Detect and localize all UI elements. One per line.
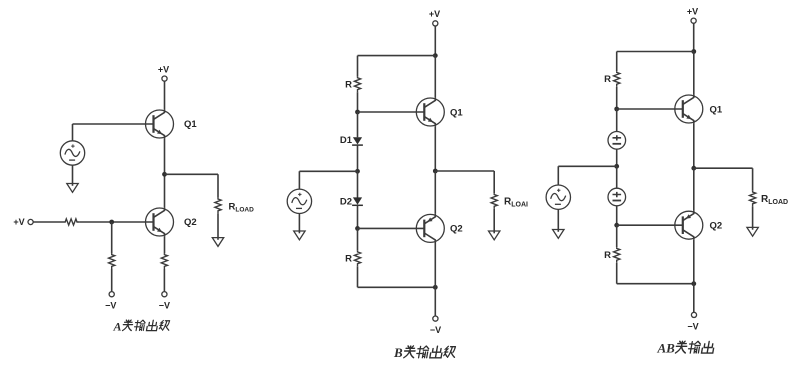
- transistor Q1: [146, 109, 174, 138]
- wire down to R1: [357, 56, 359, 77]
- svg-text:−V: −V: [430, 325, 441, 335]
- node output junction: [433, 169, 438, 174]
- ground: [294, 231, 305, 240]
- resistor RB (horizontal): [64, 219, 80, 225]
- transistor Q2: [416, 214, 444, 243]
- svg-text:−V: −V: [159, 301, 170, 311]
- resistor RLOAD: [215, 198, 221, 214]
- resistor R bias: [109, 253, 115, 269]
- transistor Q2: [675, 211, 703, 240]
- wire junction to Q1 collector: [434, 56, 436, 98]
- caption AB class output: [657, 340, 715, 355]
- node source junction: [355, 169, 360, 174]
- svg-text:D2: D2: [340, 197, 352, 208]
- svg-text:R: R: [345, 80, 352, 91]
- transistor Q1: [675, 94, 703, 123]
- wire RLOAD to ground: [493, 209, 495, 233]
- wire Q1 emitter to output: [693, 124, 695, 169]
- wire +V to Q1 collector: [164, 81, 166, 109]
- wire junction down: [111, 222, 113, 253]
- wire Q1 base: [73, 123, 146, 125]
- source VS2 (sine): [287, 189, 311, 213]
- node Q2 base junction: [355, 226, 360, 231]
- svg-text:−V: −V: [687, 322, 698, 332]
- node +V terminal: [691, 18, 696, 23]
- wire node to D1: [357, 112, 359, 137]
- node -V terminal: [162, 292, 167, 297]
- source VS3 (sine): [546, 185, 570, 209]
- node -V terminal: [109, 292, 114, 297]
- ground: [747, 227, 758, 236]
- svg-text:B: B: [393, 345, 403, 360]
- wire RLOAD to ground: [217, 213, 219, 239]
- svg-text:R: R: [604, 250, 611, 261]
- wire output to Q2 emitter: [434, 171, 436, 214]
- node Q1 base junction: [614, 107, 619, 112]
- wire bottom to -V: [693, 284, 695, 313]
- node top junction: [691, 49, 696, 54]
- wire node to R2: [616, 225, 618, 247]
- resistor RLOAD: [750, 191, 756, 207]
- svg-text:Q1: Q1: [450, 107, 463, 118]
- wire VS2 to ground: [298, 214, 300, 234]
- svg-text:A: A: [113, 320, 122, 334]
- wire output to RLOAD: [694, 168, 753, 191]
- wire VS1 to ground: [72, 165, 74, 186]
- wire top rail left: [358, 55, 436, 57]
- wire node to R2: [357, 228, 359, 250]
- wire R2 to bottom rail: [357, 266, 359, 287]
- node +V terminal: [162, 76, 167, 81]
- wire down to R1: [616, 52, 618, 72]
- wire to Q2 base: [617, 224, 675, 226]
- wire output to RLOAD: [435, 171, 494, 193]
- svg-text:R: R: [604, 74, 611, 85]
- ground: [553, 230, 564, 239]
- caption A class output stage: [113, 320, 171, 334]
- wire resistor to Q2 base: [80, 221, 146, 223]
- source VS1 (sine): [60, 141, 84, 165]
- wire bottom to -V: [434, 287, 436, 316]
- wire VS3 to ground: [557, 209, 559, 231]
- transistor Q2: [146, 207, 174, 236]
- wire node to source VS3: [558, 166, 616, 185]
- svg-text:D1: D1: [340, 135, 353, 146]
- ground: [489, 231, 500, 240]
- wire node to source VS2: [299, 171, 357, 189]
- node base junction: [109, 220, 114, 225]
- wire to -V terminal: [111, 269, 113, 292]
- node output junction: [691, 166, 696, 171]
- svg-text:+V: +V: [13, 217, 24, 227]
- node source junction: [614, 164, 619, 169]
- node bottom junction: [433, 285, 438, 290]
- wire RLOAD to ground: [752, 206, 754, 229]
- svg-text:Q2: Q2: [450, 224, 463, 235]
- node +V input terminal: [28, 219, 33, 224]
- node Q2 base junction: [614, 223, 619, 228]
- svg-text:+V: +V: [429, 9, 440, 19]
- wire output to RLOAD: [165, 174, 219, 198]
- caption B class output stage: [393, 345, 456, 360]
- wire node to V1: [616, 109, 618, 132]
- transistor Q1: [416, 97, 444, 126]
- svg-text:Q1: Q1: [710, 104, 723, 115]
- diode D1: [352, 137, 363, 145]
- wire to Q1 base: [358, 111, 417, 113]
- wire Q1 emitter to output: [434, 127, 436, 171]
- node Q1 base junction: [355, 110, 360, 115]
- wire D2 to node: [357, 205, 359, 228]
- svg-text:Q1: Q1: [184, 119, 197, 130]
- wire to -V terminal: [163, 269, 165, 292]
- resistor R1: [614, 71, 620, 87]
- wire Q2 collector to bottom: [693, 240, 695, 284]
- node output junction: [162, 172, 167, 177]
- svg-text:+V: +V: [687, 6, 698, 16]
- svg-text:−V: −V: [105, 301, 116, 311]
- source V1 (bias battery): [608, 132, 626, 150]
- wire bottom rail: [617, 283, 694, 285]
- source V2 (bias battery): [608, 188, 626, 206]
- node bottom junction: [691, 281, 696, 286]
- resistor R2: [354, 251, 360, 267]
- wire to Q1 base: [617, 108, 675, 110]
- resistor RLOAD: [491, 193, 497, 209]
- resistor RE: [161, 253, 167, 269]
- diode D2: [352, 197, 363, 205]
- wire to source VS1: [72, 124, 74, 141]
- wire input to resistor: [33, 221, 64, 223]
- wire node to V2: [616, 166, 618, 188]
- wire junction to Q1 collector: [693, 52, 695, 95]
- wire top rail left: [617, 51, 694, 53]
- wire output to Q2 emitter: [693, 168, 695, 210]
- node top junction: [433, 53, 438, 58]
- svg-text:+V: +V: [158, 64, 169, 74]
- wire Q2 collector to bottom: [434, 243, 436, 287]
- wire R2 to bottom rail: [616, 263, 618, 284]
- svg-text:R: R: [345, 254, 352, 265]
- wire to Q2 base: [358, 227, 417, 229]
- wire Q2 emitter down: [164, 237, 166, 254]
- resistor R1: [354, 77, 360, 93]
- wire Q1 emitter to Q2 collector: [164, 139, 166, 208]
- ground: [67, 184, 78, 193]
- svg-text:AB: AB: [657, 340, 676, 355]
- node -V terminal: [433, 316, 438, 321]
- wire bottom rail: [358, 286, 436, 288]
- svg-text:Q2: Q2: [184, 217, 197, 228]
- wire V2 to node: [616, 206, 618, 225]
- wire V1 to node: [616, 149, 618, 166]
- wire node to D2: [357, 171, 359, 197]
- resistor R2: [614, 247, 620, 263]
- wire +V down: [693, 23, 695, 51]
- wire +V down: [434, 26, 436, 55]
- node +V terminal: [433, 21, 438, 26]
- wire R1 to node: [616, 87, 618, 109]
- ground: [212, 238, 223, 247]
- node -V terminal: [691, 312, 696, 317]
- wire R1 to node: [357, 92, 359, 112]
- svg-text:Q2: Q2: [710, 220, 723, 231]
- wire D1 to node: [357, 145, 359, 171]
